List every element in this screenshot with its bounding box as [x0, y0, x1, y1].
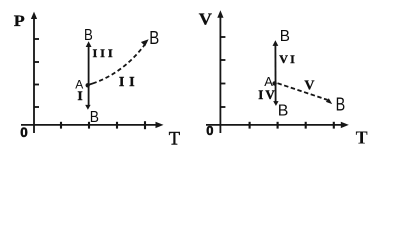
svg-text:P: P — [14, 13, 25, 30]
svg-text:0: 0 — [20, 125, 28, 140]
svg-text:V: V — [199, 9, 213, 28]
svg-text:T: T — [356, 128, 368, 148]
svg-text:T: T — [169, 130, 180, 150]
svg-text:B: B — [336, 95, 346, 115]
svg-text:B: B — [90, 109, 99, 126]
svg-text:B: B — [149, 28, 159, 48]
svg-text:B: B — [280, 28, 290, 45]
svg-text:III: III — [93, 46, 116, 60]
svg-text:B: B — [84, 27, 93, 44]
svg-text:II: II — [119, 74, 140, 89]
svg-text:0: 0 — [206, 123, 213, 138]
svg-text:B: B — [278, 103, 289, 120]
svg-text:I: I — [78, 88, 83, 103]
svg-text:VI: VI — [279, 52, 297, 66]
svg-text:IV: IV — [258, 87, 276, 102]
svg-text:V: V — [304, 79, 314, 94]
